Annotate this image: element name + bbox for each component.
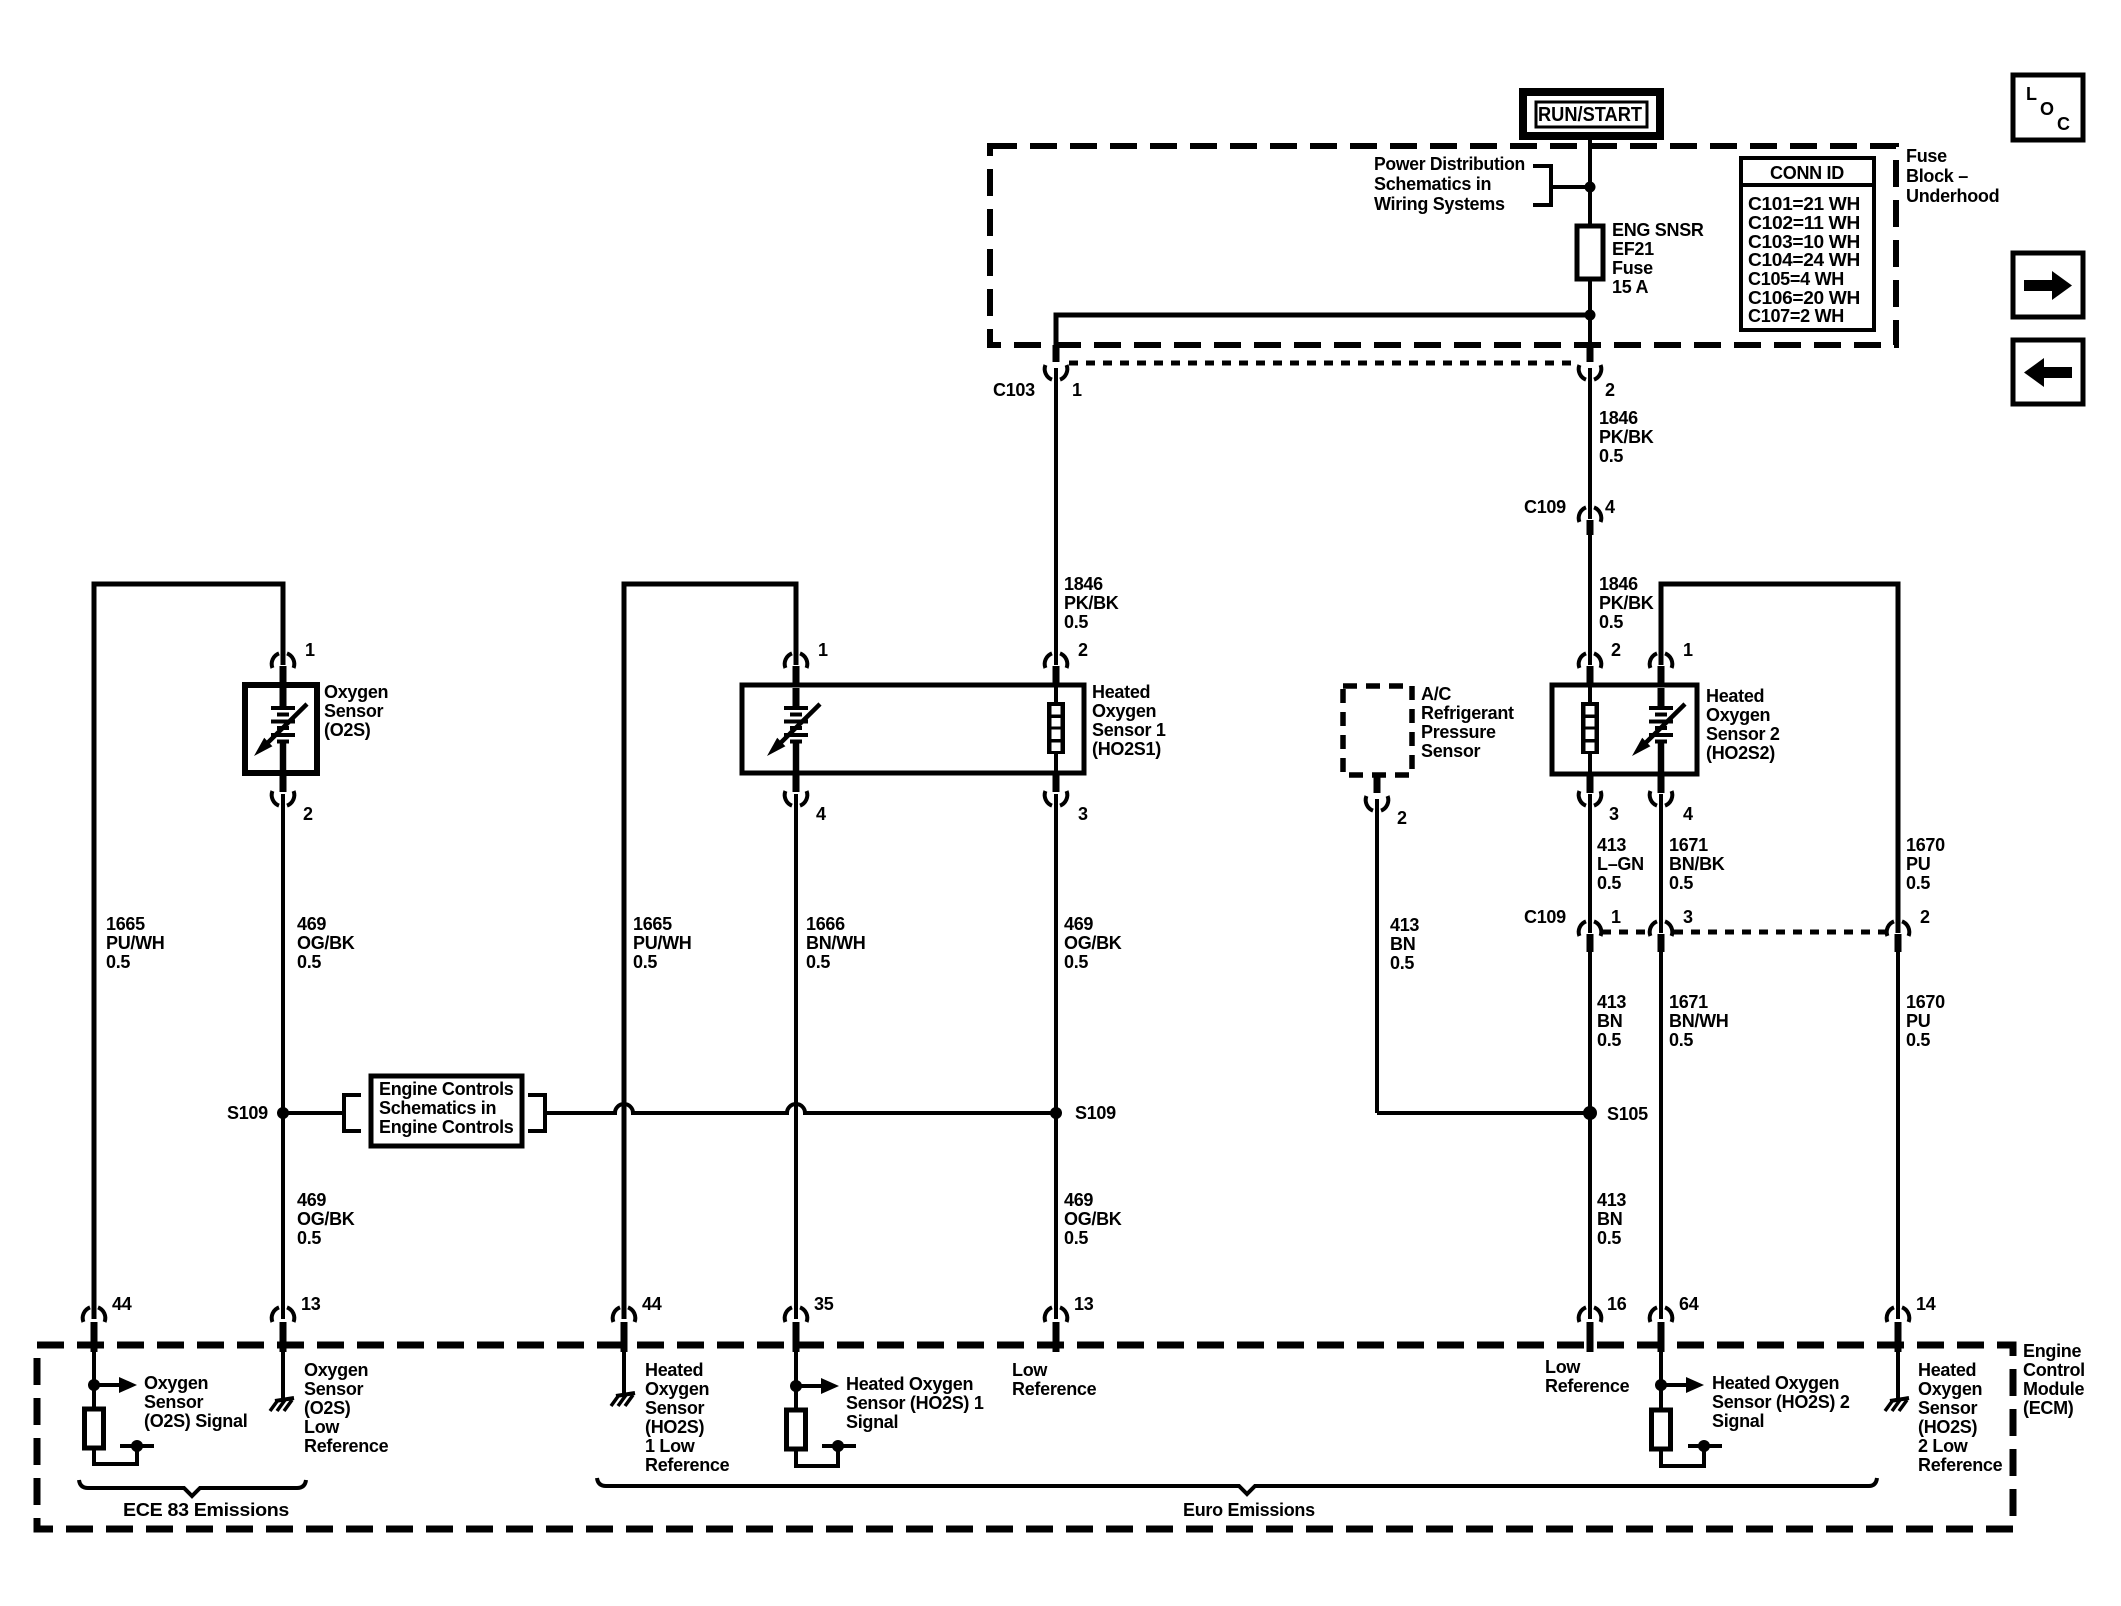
- svg-text:Sensor: Sensor: [1421, 741, 1481, 761]
- svg-text:ENG SNSR: ENG SNSR: [1612, 220, 1704, 240]
- svg-text:BN/WH: BN/WH: [1669, 1011, 1729, 1031]
- ECM pin 16 connector: [1579, 1307, 1602, 1352]
- svg-text:O: O: [2040, 99, 2054, 119]
- wire resistor measurement loop (O2S): [94, 1448, 137, 1464]
- svg-text:Heated: Heated: [1092, 682, 1150, 702]
- svg-text:4: 4: [1605, 497, 1615, 517]
- label Engine Control Module (ECM): [2023, 1341, 2085, 1418]
- ground HO2S2 low reference: [1885, 1398, 1909, 1411]
- svg-text:Sensor: Sensor: [144, 1392, 204, 1412]
- svg-text:S105: S105: [1607, 1104, 1648, 1124]
- svg-text:35: 35: [814, 1294, 834, 1314]
- svg-text:(HO2S): (HO2S): [1918, 1417, 1978, 1437]
- svg-text:469: 469: [297, 1190, 326, 1210]
- svg-text:0.5: 0.5: [1599, 446, 1623, 466]
- brace ECE 83 Emissions: [79, 1480, 306, 1496]
- svg-text:Sensor: Sensor: [1918, 1398, 1978, 1418]
- wire label 413 BN 0.5 (below C109): [1597, 992, 1626, 1050]
- signal arrow O2S: [94, 1377, 137, 1393]
- wire pin 35 to input dot: [794, 1352, 798, 1410]
- HO2S1 heater element: [1047, 687, 1065, 771]
- wire label 1846 PK/BK 0.5 (into HO2S1): [1064, 574, 1119, 632]
- wire label 1670 PU 0.5 (upper): [1906, 835, 1945, 893]
- svg-text:ECE 83 Emissions: ECE 83 Emissions: [123, 1500, 289, 1520]
- svg-text:2: 2: [1605, 380, 1615, 400]
- wire label 413 BN 0.5 (below S105): [1597, 1190, 1626, 1248]
- svg-text:S109: S109: [227, 1103, 268, 1123]
- reference bracket right of Engine Controls: [528, 1095, 545, 1131]
- svg-text:PU/WH: PU/WH: [633, 933, 692, 953]
- wire pin 13 to ground: [281, 1352, 285, 1400]
- svg-text:Schematics in: Schematics in: [379, 1098, 496, 1118]
- svg-text:PU: PU: [1906, 1011, 1930, 1031]
- connector C103 pin 1: [1045, 345, 1068, 665]
- connector C103 pin 2: [1579, 345, 1602, 519]
- svg-text:Block –: Block –: [1906, 166, 1968, 186]
- wire pin 64 to input dot: [1659, 1352, 1663, 1410]
- svg-text:Oxygen: Oxygen: [1706, 705, 1770, 725]
- splice S109: [277, 1107, 289, 1119]
- node HO2S2 signal tap: [1655, 1379, 1667, 1391]
- HO2S1 pin 2 connector: [1045, 653, 1068, 687]
- wire label 1846 PK/BK 0.5 (C109 to HO2S2): [1599, 574, 1654, 632]
- wire resistor measurement loop (HO2S2): [1661, 1449, 1704, 1466]
- svg-text:0.5: 0.5: [1669, 873, 1693, 893]
- svg-text:Sensor (HO2S) 1: Sensor (HO2S) 1: [846, 1393, 984, 1413]
- wire 1846 into HO2S2 pin 2: [1579, 653, 1602, 687]
- svg-text:0.5: 0.5: [1599, 612, 1623, 632]
- svg-text:Module: Module: [2023, 1379, 2084, 1399]
- connector C109 pin 1: [1579, 921, 1602, 1319]
- wire label 1666 BN/WH 0.5: [806, 914, 866, 972]
- O2S pin 2 connector: [272, 771, 295, 1319]
- svg-text:2: 2: [303, 804, 313, 824]
- wire label 413 BN 0.5 (A/C sensor): [1390, 915, 1419, 973]
- svg-text:413: 413: [1597, 835, 1626, 855]
- svg-text:0.5: 0.5: [1064, 952, 1088, 972]
- svg-text:RUN/START: RUN/START: [1538, 104, 1642, 126]
- wire HO2S1 signal loop top: [624, 584, 796, 1319]
- svg-text:1670: 1670: [1906, 835, 1945, 855]
- svg-text:0.5: 0.5: [1669, 1030, 1693, 1050]
- connector C109 pin 3: [1650, 921, 1673, 1319]
- svg-text:Low: Low: [1545, 1357, 1581, 1377]
- label Heated Oxygen Sensor (HO2S) 1 Signal: [846, 1374, 984, 1432]
- svg-text:Control: Control: [2023, 1360, 2085, 1380]
- ECM pin 13 connector (O2S low ref): [272, 1307, 295, 1352]
- ECM pin 44 connector (HO2S1 low ref): [613, 1307, 636, 1352]
- svg-text:1846: 1846: [1064, 574, 1103, 594]
- wire O2S signal loop top: [94, 584, 283, 1319]
- svg-text:44: 44: [112, 1294, 132, 1314]
- label Oxygen Sensor (O2S) Signal: [144, 1373, 247, 1431]
- wire bracket to main feed: [1551, 185, 1590, 189]
- svg-text:0.5: 0.5: [1597, 873, 1621, 893]
- svg-text:Low: Low: [1012, 1360, 1048, 1380]
- ECM pin 35 connector (HO2S1 signal): [785, 1307, 808, 1352]
- wire label 1665 PU/WH 0.5 (middle): [633, 914, 692, 972]
- wire below fuse: [1588, 279, 1592, 345]
- svg-text:1846: 1846: [1599, 574, 1638, 594]
- HO2S1 pin 3 connector: [1045, 771, 1068, 1319]
- label Heated Oxygen Sensor (HO2S) 1 Low Reference: [645, 1360, 730, 1475]
- wire HO2S2 pin 1 loop to 1670: [1661, 584, 1898, 933]
- svg-text:44: 44: [642, 1294, 662, 1314]
- svg-text:Reference: Reference: [1545, 1376, 1630, 1396]
- svg-text:C104=24 WH: C104=24 WH: [1748, 250, 1860, 270]
- svg-text:1: 1: [1611, 907, 1621, 927]
- label Oxygen Sensor (O2S): [324, 682, 388, 740]
- label Low Reference (pin 16): [1545, 1357, 1630, 1396]
- svg-text:BN/BK: BN/BK: [1669, 854, 1725, 874]
- label ENG SNSR EF21 Fuse 15 A: [1612, 220, 1704, 297]
- reference bracket left of Engine Controls: [344, 1095, 361, 1131]
- heated oxygen sensor 2 HO2S2 box: [1552, 685, 1697, 774]
- label Fuse Block - Underhood: [1906, 146, 1999, 206]
- wire from RUN/START to fuse: [1588, 136, 1592, 226]
- svg-text:Oxygen: Oxygen: [144, 1373, 208, 1393]
- svg-text:EF21: EF21: [1612, 239, 1654, 259]
- svg-text:Heated: Heated: [1706, 686, 1764, 706]
- svg-text:15 A: 15 A: [1612, 277, 1648, 297]
- svg-text:OG/BK: OG/BK: [297, 1209, 355, 1229]
- svg-text:Heated Oxygen: Heated Oxygen: [1712, 1373, 1839, 1393]
- ground O2S low reference: [270, 1398, 294, 1411]
- power feed RUN/START box: [1523, 92, 1660, 136]
- svg-text:(O2S): (O2S): [304, 1398, 351, 1418]
- node O2S signal tap: [88, 1379, 100, 1391]
- HO2S2 heater element: [1581, 687, 1599, 772]
- svg-text:C105=4 WH: C105=4 WH: [1748, 269, 1844, 289]
- svg-text:C103=10 WH: C103=10 WH: [1748, 232, 1860, 252]
- svg-text:Sensor 2: Sensor 2: [1706, 724, 1780, 744]
- svg-text:Heated: Heated: [645, 1360, 703, 1380]
- svg-text:C109: C109: [1524, 497, 1566, 517]
- wire pin 44 to input dot: [92, 1352, 96, 1409]
- svg-text:Reference: Reference: [1012, 1379, 1097, 1399]
- wire label 413 L-GN 0.5: [1597, 835, 1644, 893]
- svg-text:Sensor (HO2S) 2: Sensor (HO2S) 2: [1712, 1392, 1850, 1412]
- svg-text:1846: 1846: [1599, 408, 1638, 428]
- wire S109 to bracket: [283, 1111, 344, 1115]
- svg-text:Signal: Signal: [846, 1412, 898, 1432]
- reference box Engine Controls Schematics: [371, 1076, 522, 1146]
- svg-text:Engine Controls: Engine Controls: [379, 1079, 514, 1099]
- node measurement tap (HO2S1): [832, 1440, 844, 1452]
- svg-text:413: 413: [1597, 1190, 1626, 1210]
- connector C109 pin 2: [1887, 921, 1910, 1319]
- svg-text:1: 1: [1072, 380, 1082, 400]
- svg-text:0.5: 0.5: [297, 1228, 321, 1248]
- svg-text:L: L: [2026, 84, 2037, 104]
- svg-text:1: 1: [818, 640, 828, 660]
- svg-text:BN/WH: BN/WH: [806, 933, 866, 953]
- connector C109 dotted link: [1602, 930, 1885, 935]
- ECM pin 14 connector (HO2S2 low ref): [1887, 1307, 1910, 1352]
- label Heated Oxygen Sensor 1 (HO2S1): [1092, 682, 1166, 759]
- svg-text:1671: 1671: [1669, 992, 1708, 1012]
- svg-text:C106=20 WH: C106=20 WH: [1748, 288, 1860, 308]
- svg-text:413: 413: [1597, 992, 1626, 1012]
- svg-text:C101=21 WH: C101=21 WH: [1748, 194, 1860, 214]
- svg-text:C109: C109: [1524, 907, 1566, 927]
- svg-text:Reference: Reference: [645, 1455, 730, 1475]
- svg-text:64: 64: [1679, 1294, 1699, 1314]
- fuse ENG SNSR EF21 15A: [1577, 226, 1603, 279]
- svg-text:C103: C103: [993, 380, 1035, 400]
- svg-text:(ECM): (ECM): [2023, 1398, 2074, 1418]
- svg-text:Wiring Systems: Wiring Systems: [1374, 194, 1505, 214]
- svg-text:Heated: Heated: [1918, 1360, 1976, 1380]
- ECM pin 44 connector (O2S signal): [83, 1307, 106, 1352]
- A/C refrigerant pressure sensor dashed box: [1343, 686, 1412, 775]
- HO2S1 pin 1 connector: [785, 653, 808, 687]
- svg-text:0.5: 0.5: [1064, 612, 1088, 632]
- HO2S2 pin 3 connector: [1579, 772, 1602, 933]
- junction at power distribution tap: [1585, 182, 1596, 193]
- svg-text:Oxygen: Oxygen: [645, 1379, 709, 1399]
- node measurement tap (O2S): [131, 1440, 143, 1452]
- svg-text:1671: 1671: [1669, 835, 1708, 855]
- HO2S2 sensing element: [1632, 688, 1685, 773]
- svg-text:0.5: 0.5: [1597, 1030, 1621, 1050]
- wire label 469 OG/BK 0.5 (upper): [297, 914, 355, 972]
- svg-text:PU/WH: PU/WH: [106, 933, 165, 953]
- svg-text:C102=11 WH: C102=11 WH: [1748, 213, 1860, 233]
- O2S sensing element: [254, 688, 307, 773]
- svg-text:13: 13: [301, 1294, 321, 1314]
- svg-text:13: 13: [1074, 1294, 1094, 1314]
- svg-text:3: 3: [1683, 907, 1693, 927]
- svg-text:0.5: 0.5: [106, 952, 130, 972]
- svg-text:0.5: 0.5: [806, 952, 830, 972]
- label Oxygen Sensor (O2S) Low Reference: [304, 1360, 389, 1456]
- svg-text:(HO2S1): (HO2S1): [1092, 739, 1161, 759]
- svg-text:1: 1: [305, 640, 315, 660]
- svg-text:Sensor: Sensor: [645, 1398, 705, 1418]
- svg-text:A/C: A/C: [1421, 684, 1451, 704]
- svg-text:Oxygen: Oxygen: [1918, 1379, 1982, 1399]
- svg-text:Sensor 1: Sensor 1: [1092, 720, 1166, 740]
- svg-text:C107=2 WH: C107=2 WH: [1748, 306, 1844, 326]
- svg-text:Refrigerant: Refrigerant: [1421, 703, 1514, 723]
- svg-text:PK/BK: PK/BK: [1064, 593, 1119, 613]
- svg-text:1665: 1665: [106, 914, 145, 934]
- node HO2S1 signal tap: [790, 1380, 802, 1392]
- svg-text:1670: 1670: [1906, 992, 1945, 1012]
- ECM input resistor (HO2S2): [1652, 1410, 1671, 1449]
- svg-text:C: C: [2057, 114, 2070, 134]
- svg-text:2: 2: [1611, 640, 1621, 660]
- svg-text:3: 3: [1078, 804, 1088, 824]
- svg-text:Fuse: Fuse: [1906, 146, 1947, 166]
- signal arrow HO2S2: [1661, 1377, 1704, 1393]
- HO2S1 pin 4 connector: [785, 771, 808, 1319]
- HO2S2 pin 4 connector: [1650, 772, 1673, 933]
- svg-text:2: 2: [1078, 640, 1088, 660]
- svg-text:Oxygen: Oxygen: [324, 682, 388, 702]
- svg-text:Engine: Engine: [2023, 1341, 2081, 1361]
- label Low Reference (pin 13): [1012, 1360, 1097, 1399]
- ECM input resistor (HO2S1): [787, 1410, 806, 1449]
- heated oxygen sensor 1 HO2S1 box: [742, 685, 1084, 773]
- svg-text:3: 3: [1609, 804, 1619, 824]
- wire label 1670 PU 0.5 (lower): [1906, 992, 1945, 1050]
- svg-text:BN: BN: [1597, 1011, 1622, 1031]
- tap tick (O2S): [120, 1444, 154, 1448]
- svg-text:Power Distribution: Power Distribution: [1374, 154, 1525, 174]
- svg-text:(O2S) Signal: (O2S) Signal: [144, 1411, 247, 1431]
- wire label 469 OG/BK 0.5 (lower): [297, 1190, 355, 1248]
- HO2S2 pin 1 connector: [1650, 653, 1673, 687]
- svg-text:4: 4: [1683, 804, 1693, 824]
- svg-text:OG/BK: OG/BK: [297, 933, 355, 953]
- wire label 1671 BN/BK 0.5: [1669, 835, 1725, 893]
- svg-text:BN: BN: [1597, 1209, 1622, 1229]
- svg-text:Reference: Reference: [1918, 1455, 2003, 1475]
- svg-text:413: 413: [1390, 915, 1419, 935]
- label Heated Oxygen Sensor (HO2S) 2 Signal: [1712, 1373, 1850, 1431]
- label Power Distribution Schematics in Wiring Systems: [1374, 154, 1525, 214]
- svg-text:Oxygen: Oxygen: [1092, 701, 1156, 721]
- wire pin 14 to ground: [1896, 1352, 1900, 1400]
- svg-text:Signal: Signal: [1712, 1411, 1764, 1431]
- svg-text:469: 469: [1064, 1190, 1093, 1210]
- svg-text:L–GN: L–GN: [1597, 854, 1644, 874]
- splice S105: [1583, 1106, 1597, 1120]
- svg-text:0.5: 0.5: [1597, 1228, 1621, 1248]
- svg-text:PK/BK: PK/BK: [1599, 593, 1654, 613]
- LOC reference box: [2013, 75, 2083, 140]
- svg-text:PU: PU: [1906, 854, 1930, 874]
- svg-text:0.5: 0.5: [633, 952, 657, 972]
- svg-text:(O2S): (O2S): [324, 720, 371, 740]
- tap tick (HO2S1): [822, 1444, 856, 1448]
- ground HO2S1 low reference: [611, 1393, 635, 1406]
- svg-text:Low: Low: [304, 1417, 340, 1437]
- svg-text:0.5: 0.5: [297, 952, 321, 972]
- svg-text:1666: 1666: [806, 914, 845, 934]
- svg-text:Sensor: Sensor: [324, 701, 384, 721]
- wire label 469 OG/BK 0.5 (HO2S1 upper): [1064, 914, 1122, 972]
- HO2S1 sensing element: [767, 688, 820, 773]
- svg-text:1: 1: [1683, 640, 1693, 660]
- svg-text:Euro Emissions: Euro Emissions: [1183, 1500, 1315, 1520]
- svg-text:(HO2S2): (HO2S2): [1706, 743, 1775, 763]
- svg-text:OG/BK: OG/BK: [1064, 1209, 1122, 1229]
- O2S pin 1 connector: [272, 653, 295, 687]
- svg-text:0.5: 0.5: [1906, 873, 1930, 893]
- engine control module ECM dashed box: [37, 1345, 2013, 1529]
- wire label 1665 PU/WH 0.5 (left): [106, 914, 165, 972]
- CONN ID table: [1741, 158, 1874, 330]
- svg-text:2: 2: [1397, 808, 1407, 828]
- label Heated Oxygen Sensor 2 (HO2S2): [1706, 686, 1780, 763]
- wire pin 44 to ground: [622, 1352, 626, 1395]
- wire bracket to S109 splice 2 with hops: [545, 1104, 1056, 1113]
- node measurement tap (HO2S2): [1698, 1440, 1710, 1452]
- svg-text:Sensor: Sensor: [304, 1379, 364, 1399]
- tap tick (HO2S2): [1688, 1444, 1722, 1448]
- svg-text:Heated Oxygen: Heated Oxygen: [846, 1374, 973, 1394]
- back navigation arrow box: [2013, 340, 2083, 404]
- svg-text:14: 14: [1916, 1294, 1936, 1314]
- fuse block underhood dashed box: [990, 146, 1896, 345]
- svg-text:0.5: 0.5: [1390, 953, 1414, 973]
- svg-text:0.5: 0.5: [1064, 1228, 1088, 1248]
- svg-text:Fuse: Fuse: [1612, 258, 1653, 278]
- splice S109 on 469 wire: [1050, 1107, 1062, 1119]
- svg-text:BN: BN: [1390, 934, 1415, 954]
- A/C sensor pin 2 connector: [1366, 773, 1389, 1113]
- brace Euro Emissions: [597, 1478, 1877, 1494]
- svg-text:2 Low: 2 Low: [1918, 1436, 1969, 1456]
- svg-text:PK/BK: PK/BK: [1599, 427, 1654, 447]
- svg-text:Underhood: Underhood: [1906, 186, 1999, 206]
- svg-text:469: 469: [1064, 914, 1093, 934]
- svg-text:469: 469: [297, 914, 326, 934]
- wire label 1846 PK/BK 0.5 (C103 to C109): [1599, 408, 1654, 466]
- svg-text:Pressure: Pressure: [1421, 722, 1496, 742]
- svg-text:CONN ID: CONN ID: [1770, 163, 1844, 183]
- ECM pin 13 connector (low ref euro): [1045, 1307, 1068, 1352]
- ECM input resistor (O2S): [85, 1409, 104, 1448]
- svg-text:Reference: Reference: [304, 1436, 389, 1456]
- label A/C Refrigerant Pressure Sensor: [1421, 684, 1514, 761]
- svg-text:Engine Controls: Engine Controls: [379, 1117, 514, 1137]
- oxygen sensor O2S box: [245, 685, 317, 773]
- wire resistor measurement loop (HO2S1): [796, 1449, 838, 1466]
- svg-text:2: 2: [1920, 907, 1930, 927]
- reference bracket to power distribution: [1533, 166, 1551, 205]
- connector C103 in-line dotted link: [1069, 361, 1578, 366]
- junction to C103 branch: [1585, 310, 1596, 321]
- svg-text:S109: S109: [1075, 1103, 1116, 1123]
- forward navigation arrow box: [2013, 253, 2083, 317]
- wire label 469 OG/BK 0.5 (HO2S1 lower): [1064, 1190, 1122, 1248]
- wire A/C sensor to S105: [1377, 1111, 1590, 1115]
- wire branch to C103 pin 1: [1056, 315, 1590, 345]
- svg-text:0.5: 0.5: [1906, 1030, 1930, 1050]
- signal arrow HO2S1: [796, 1378, 839, 1394]
- svg-text:Schematics in: Schematics in: [1374, 174, 1491, 194]
- svg-text:Oxygen: Oxygen: [304, 1360, 368, 1380]
- ECM pin 64 connector (HO2S2 signal): [1650, 1307, 1673, 1352]
- svg-text:OG/BK: OG/BK: [1064, 933, 1122, 953]
- svg-text:4: 4: [816, 804, 826, 824]
- svg-text:1 Low: 1 Low: [645, 1436, 696, 1456]
- svg-text:1665: 1665: [633, 914, 672, 934]
- svg-text:(HO2S): (HO2S): [645, 1417, 705, 1437]
- connector C109 pin 4: [1579, 507, 1602, 665]
- svg-text:16: 16: [1607, 1294, 1627, 1314]
- label Heated Oxygen Sensor (HO2S) 2 Low Reference: [1918, 1360, 2003, 1475]
- wire label 1671 BN/WH 0.5: [1669, 992, 1729, 1050]
